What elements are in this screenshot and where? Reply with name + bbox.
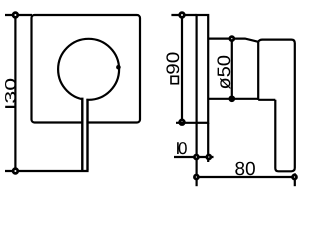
node C: pin dot on circle	[116, 65, 121, 70]
node Q: label sq90	[166, 53, 179, 84]
wire: wall line extension down	[196, 123, 198, 186]
wire: dim line dia50	[231, 39, 233, 99]
wire: cylinder top edge + collar slope	[208, 39, 258, 42]
node B: front handle escutcheon circle	[58, 39, 119, 100]
wire: dim line 10	[174, 156, 214, 158]
wire: dim line sq90	[181, 15, 183, 122]
node P: label 130	[5, 79, 16, 108]
wire: cylinder bottom edge	[208, 98, 258, 100]
wire: plate front extension down	[207, 123, 209, 162]
node L: dia50 terminator bottom	[230, 97, 234, 101]
wire: front-view top extension line	[5, 14, 32, 16]
node M: handle grip outline	[258, 40, 295, 172]
node A: front square plate 90x90	[32, 15, 141, 123]
node K: dia50 terminator top	[230, 37, 234, 41]
wire: front-view bottom extension line	[5, 170, 89, 172]
node D: dim terminator top	[13, 13, 18, 18]
node E: dim terminator bottom	[13, 169, 18, 174]
node R: label dia50	[217, 56, 230, 89]
wire: collar front edge	[257, 42, 259, 100]
wire: plate bottom extension	[176, 122, 197, 124]
node S: label 10	[177, 142, 187, 154]
wire: 80 right extension down	[294, 173, 296, 186]
node F: sq90 terminator top	[180, 13, 185, 18]
wire: lever left edge	[81, 98, 83, 171]
wire: side-view top extension line	[171, 14, 196, 16]
wire: dim line 130	[14, 15, 16, 171]
node N: dim 80 left terminator	[194, 175, 198, 179]
node H: wall plate side profile	[197, 15, 209, 123]
wire: dim line 80	[196, 176, 294, 178]
wire: collar-to-grip bottom step	[258, 99, 275, 101]
node G: sq90 terminator bottom	[180, 120, 185, 125]
wire: white mask under lever	[83, 98, 86, 170]
node I: dim 10 left terminator	[194, 155, 198, 159]
node O: dim 80 right terminator	[293, 175, 297, 179]
wire: lever right edge	[86, 99, 88, 170]
node J: dim 10 right terminator	[207, 155, 211, 159]
node T: label 80	[235, 162, 255, 176]
